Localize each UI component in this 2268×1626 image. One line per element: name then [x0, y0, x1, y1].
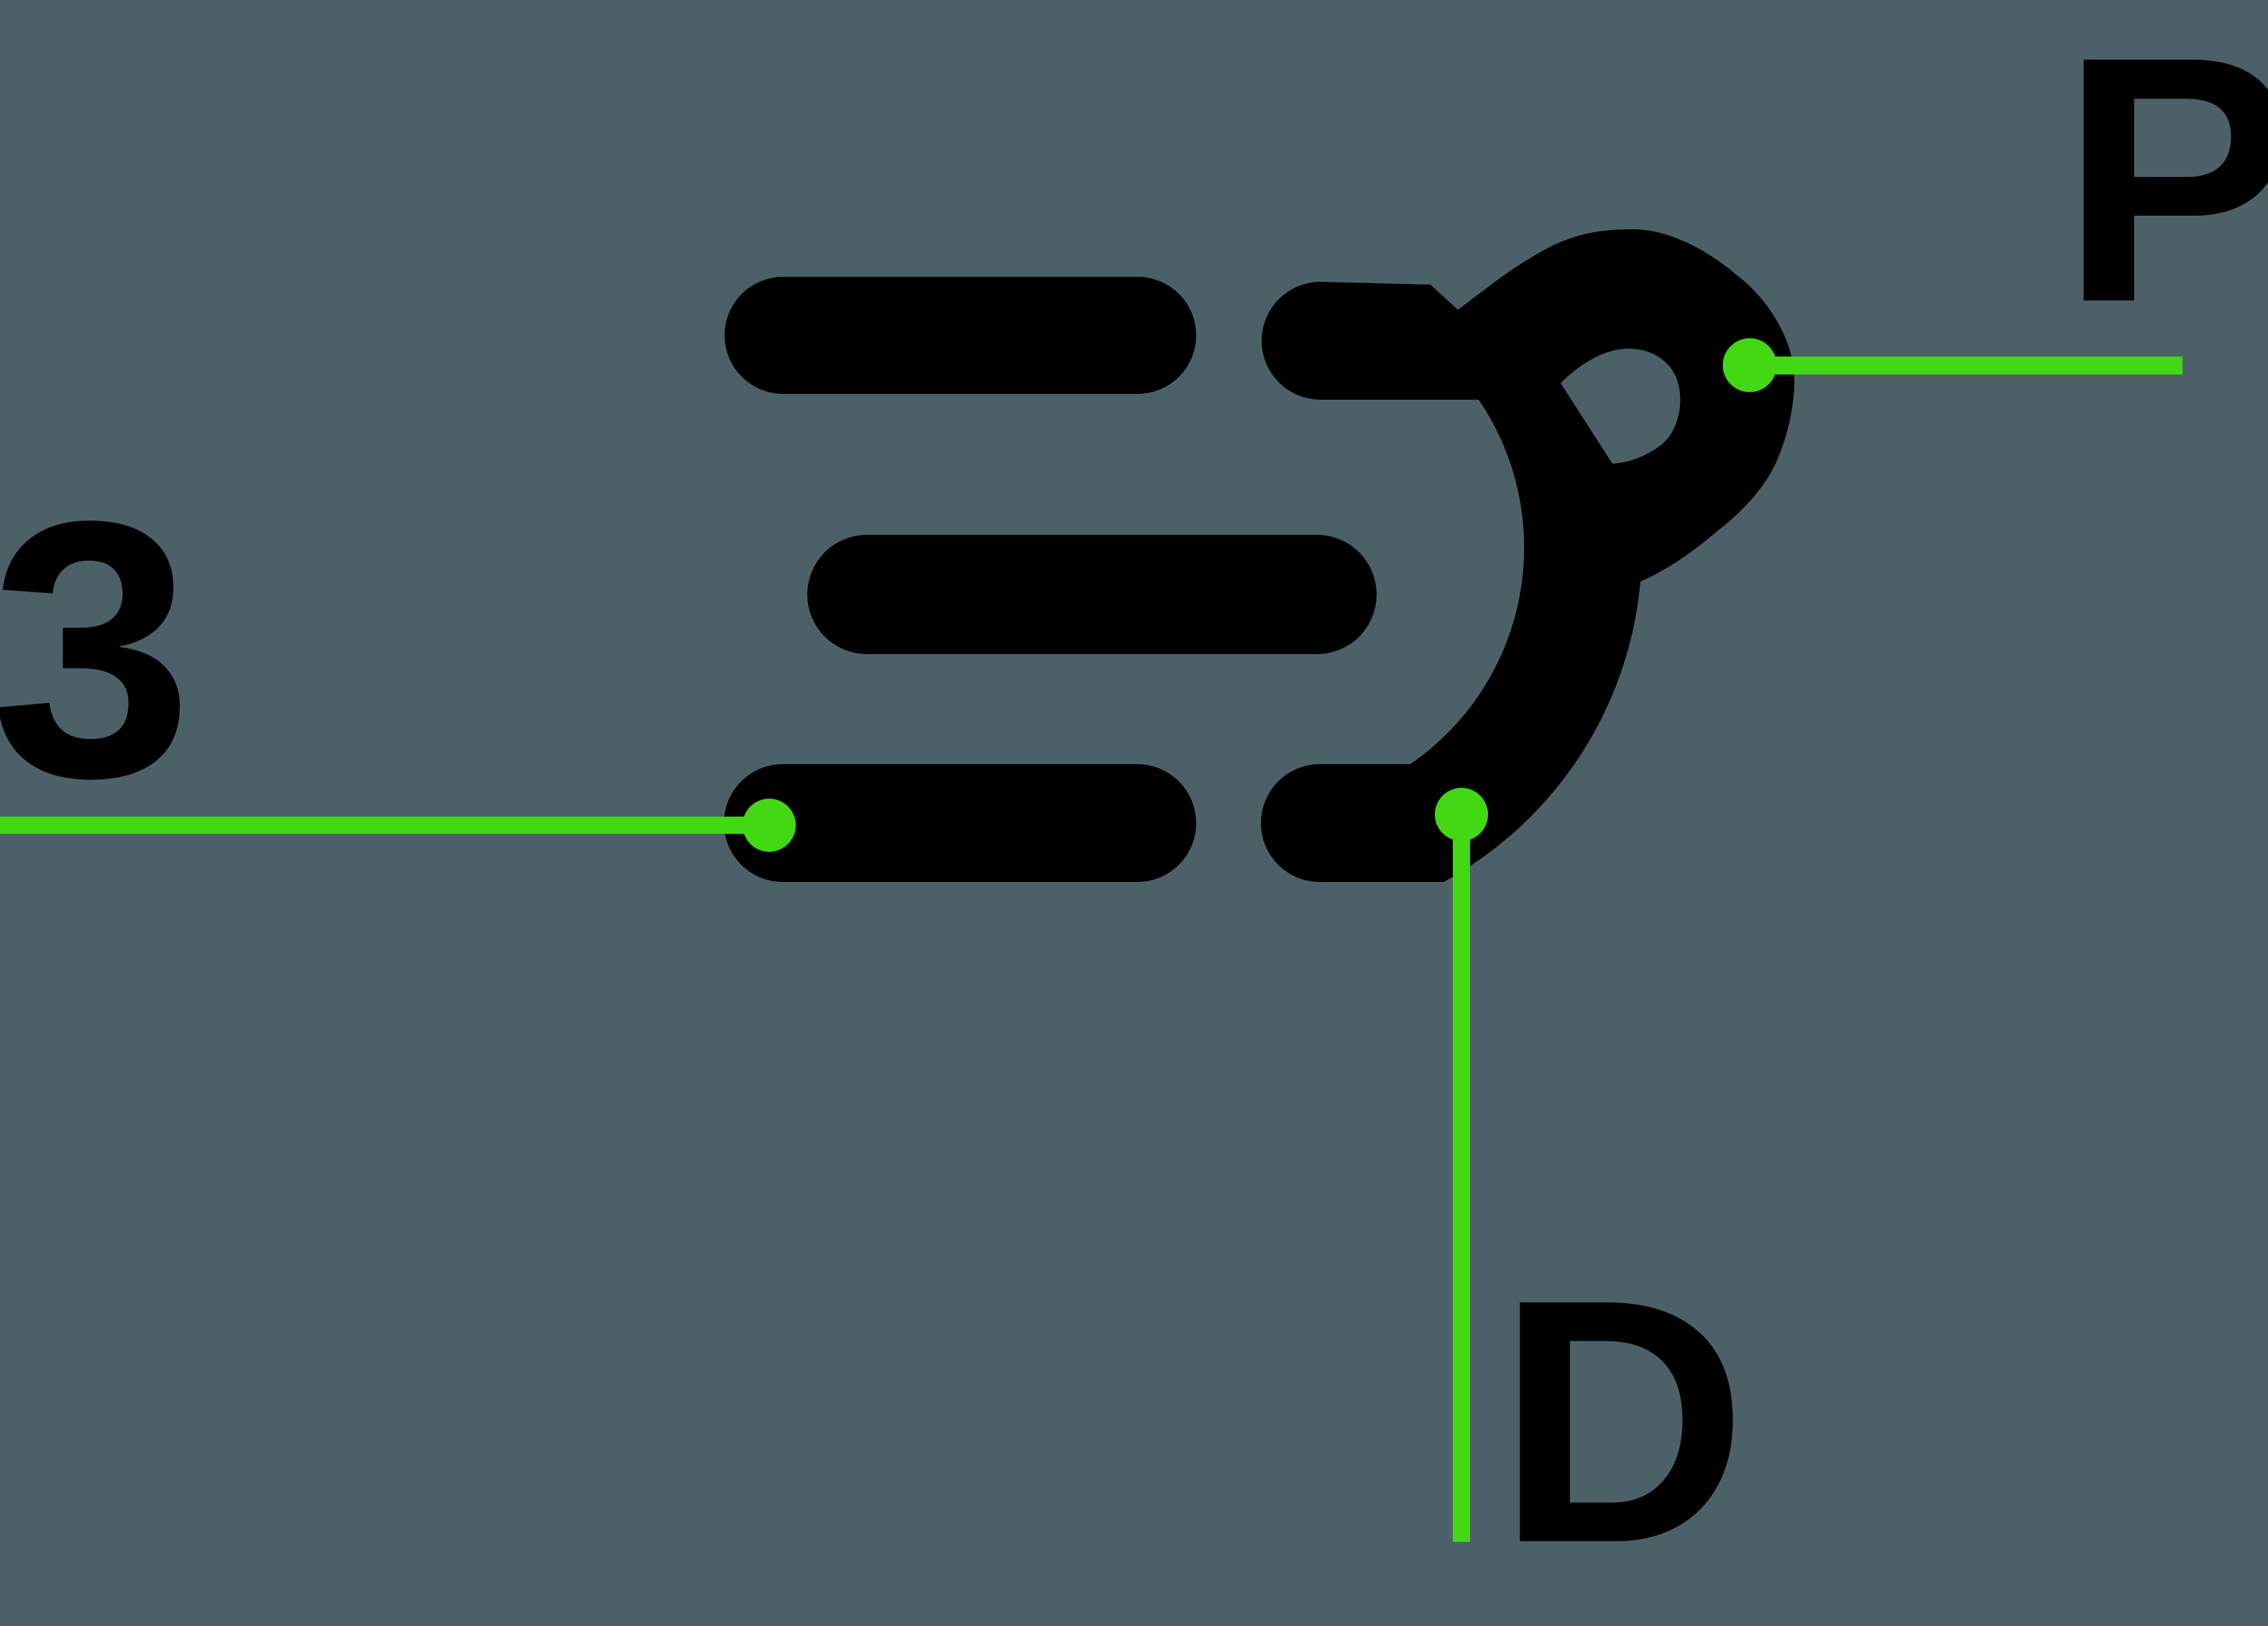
- svg-text:3: 3: [0, 445, 193, 853]
- svg-text:P: P: [2060, 0, 2268, 375]
- svg-text:D: D: [1497, 1228, 1748, 1615]
